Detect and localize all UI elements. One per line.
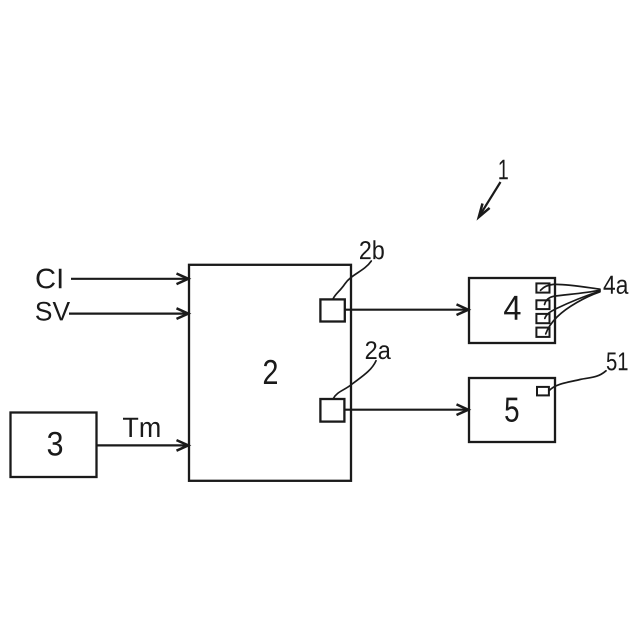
label 51: [607, 353, 628, 371]
leader line 2a: [333, 361, 376, 399]
terminal square 4a #4: [536, 328, 549, 337]
port 2a (square on right edge of box 2): [320, 399, 344, 422]
label 2a: [366, 341, 391, 359]
leader line 4a to square #3: [545, 291, 600, 318]
square 51 in box 5: [537, 387, 549, 396]
wire port 2b to box 4 arrow: [345, 309, 468, 311]
terminal square 4a #2: [536, 300, 549, 309]
port 2b (square on right edge of box 2): [320, 299, 344, 321]
label 2b: [360, 240, 384, 259]
label 1: [499, 160, 508, 180]
box 3: [11, 413, 97, 478]
box 5: [469, 378, 555, 442]
leader line 4a to square #2: [545, 290, 601, 304]
arrow for reference numeral 1: [479, 182, 500, 216]
label 4a: [604, 276, 629, 294]
box 4: [469, 278, 555, 343]
leader line 51: [550, 371, 607, 391]
terminal square 4a #3: [536, 314, 549, 323]
box 2 (main block): [189, 265, 351, 481]
wire SV arrow: [69, 313, 188, 315]
label SV: [36, 302, 70, 321]
TEXT-START: [36, 160, 628, 456]
text 5: [505, 398, 518, 422]
text 2: [264, 360, 277, 384]
wire Tm arrow (box 3 to box 2): [97, 444, 188, 446]
leader line 4a to square #4: [546, 292, 600, 334]
terminal square 4a #1: [536, 283, 549, 292]
wire port 2a to box 5 arrow: [344, 409, 467, 411]
text 3: [48, 432, 63, 456]
leader line 2b: [333, 261, 371, 299]
label CI: [37, 269, 62, 289]
label Tm: [123, 418, 160, 437]
wire CI arrow: [71, 278, 188, 280]
leader line 4a to square #1: [541, 284, 601, 290]
text 4: [504, 296, 520, 320]
